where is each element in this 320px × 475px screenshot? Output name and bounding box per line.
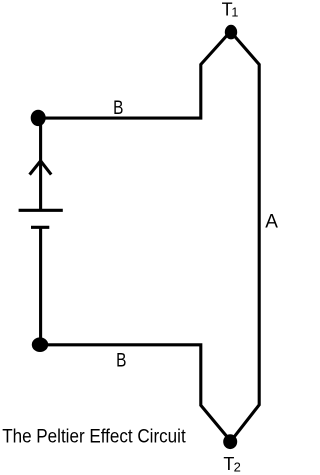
arrowhead: current direction chevron pointing up [30, 161, 52, 175]
svg-text:The Peltier Effect Circuit: The Peltier Effect Circuit [2, 427, 186, 448]
wire: conductor A from T1 down to T2 [231, 32, 260, 442]
node: top-left B junction [31, 110, 46, 126]
battery BT1 negative plate (short) [31, 226, 49, 229]
svg-text:2: 2 [234, 460, 241, 475]
node T2 (bottom junction) [223, 434, 237, 449]
svg-text:1: 1 [231, 6, 238, 20]
svg-text:B: B [116, 351, 126, 372]
wire: left branch lower vertical (battery to node) [39, 227, 42, 345]
wire: left branch upper vertical (node to battery) [39, 118, 42, 210]
svg-text:A: A [265, 212, 278, 233]
node T1 (top junction) [225, 25, 237, 40]
wire: top B conductor from top-left node to junction T1 [39, 32, 231, 119]
svg-text:B: B [113, 98, 123, 119]
battery BT1 positive plate (long) [19, 209, 63, 212]
node: bottom-left B junction [32, 337, 48, 352]
wire: bottom B conductor from bottom-left node to junction T2 [40, 345, 231, 441]
